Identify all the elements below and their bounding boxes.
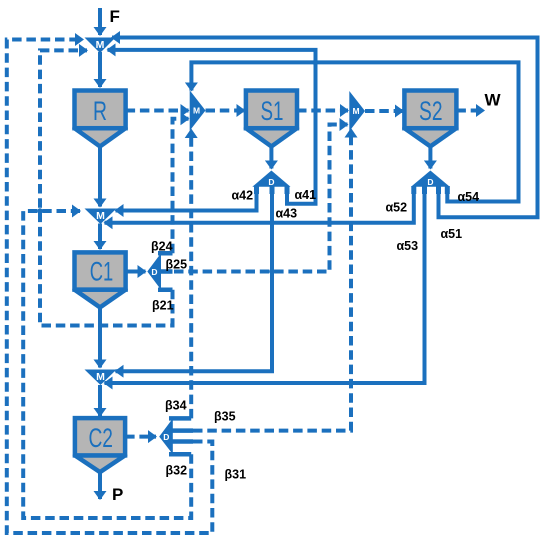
divider D4 [159,418,173,454]
wire mixer M2 to unit S1 dashed [206,109,245,113]
stream beta25 from divider D3 to mixer M4 [174,125,348,272]
stream beta31 from divider D4 to mixer M1 [7,40,213,534]
svg-text:D: D [427,177,433,187]
svg-text:M: M [193,106,200,116]
wire S2 bottoms to divider D2 [428,146,432,168]
svg-text:C1: C1 [90,257,114,287]
wire product stream P [98,472,102,499]
wire F feed [98,8,102,35]
wire mixer M5 to unit C2 [98,385,102,416]
stream beta34 arrowhead into mixer M2 [185,129,198,139]
svg-text:β21: β21 [152,299,174,313]
divider D3 outlet stubs [158,253,173,290]
svg-text:M: M [96,371,105,383]
stream alpha54 from divider D2 to mixer M2 [191,62,518,201]
svg-text:α51: α51 [441,227,463,241]
divider D3 [147,253,161,290]
wire S1 to mixer M4 dashed [297,109,348,113]
stream alpha52 from divider D2 to mixer M3 [105,186,414,223]
svg-text:β32: β32 [166,464,188,478]
wire C1 to divider D3 [126,270,146,274]
wire R to mixer M2 dashed [126,109,189,113]
wire mixer M1 to unit R [98,52,102,87]
wire unit C1 bottoms down to mixer M5 [98,307,102,367]
wire C2 to divider D4 dashed [125,435,156,439]
svg-text:α53: α53 [397,239,419,253]
stream beta32 from divider D4 to mixer M3 [23,211,191,518]
unit R [75,91,126,147]
svg-text:β24: β24 [151,240,173,254]
svg-text:C2: C2 [88,423,113,453]
svg-text:D: D [151,267,157,277]
svg-text:M: M [96,39,105,51]
unit S1 [246,91,297,147]
svg-text:α54: α54 [458,190,480,204]
svg-text:β35: β35 [214,410,236,424]
stream alpha51 from divider D2 to mixer M1 [112,38,538,218]
stream beta21 from divider D3 to mixer M1 [40,50,173,325]
unit S2 [404,91,456,147]
svg-text:R: R [93,96,107,126]
junction dots at stream crossings [37,60,317,386]
wire unit R outlet down to mixer M3 [98,146,102,206]
mixer M3 [85,209,117,225]
stream alpha53 from divider D2 to mixer M5 [105,186,425,383]
wire S2 to product W dashed [456,109,484,113]
svg-text:S1: S1 [261,96,284,126]
stream alpha42 from divider D1 to mixer M3 [116,186,257,211]
stream beta35 arrowhead into mixer M4 [345,128,358,138]
stream alpha41 from divider D1 to mixer M1 [108,50,316,204]
wire mixer M3 to unit C1 [98,224,102,250]
stream beta35 from divider D4 to mixer M4 [193,136,351,431]
divider D2 [411,171,450,195]
mixer M5 [85,370,117,386]
wire mixer M4 to unit S2 dashed [365,109,403,113]
svg-text:F: F [110,7,120,26]
stream beta24 from divider D3 to mixer M2 [173,119,189,253]
mixer M2 [190,90,206,130]
svg-text:P: P [112,485,123,504]
svg-text:D: D [268,177,274,187]
mixer M1 [85,38,116,54]
svg-text:S2: S2 [419,96,443,126]
svg-text:β31: β31 [225,468,247,482]
svg-text:α52: α52 [386,201,408,215]
stream alpha43 from divider D1 to mixer M5 [116,186,273,371]
unit C2 [75,418,125,472]
svg-text:α41: α41 [295,188,317,202]
svg-text:α43: α43 [276,207,298,221]
unit C1 [75,252,126,307]
svg-text:W: W [485,91,502,110]
svg-text:β25: β25 [166,258,188,272]
wire S1 bottoms to divider D1 [269,146,273,168]
divider D1 [252,171,290,195]
svg-text:β34: β34 [165,399,187,413]
stream beta34 from divider D4 to mixer M2 [189,136,193,418]
mixer M4 [349,91,365,131]
divider D4 outlet stubs [169,418,193,454]
svg-text:M: M [352,106,359,116]
svg-text:D: D [163,432,169,442]
svg-text:M: M [96,210,105,222]
svg-text:α42: α42 [232,189,254,203]
